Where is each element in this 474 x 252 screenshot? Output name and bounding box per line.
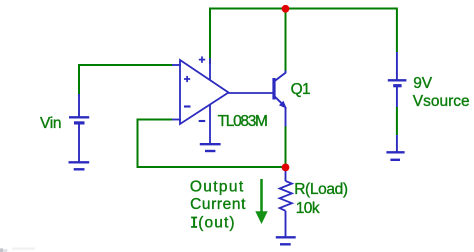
ground under Vsource xyxy=(386,135,404,160)
svg-text:9V: 9V xyxy=(413,75,433,92)
ground under Vin xyxy=(69,162,90,169)
stray screenshot artifact bottom-left xyxy=(0,248,35,252)
ground under op-amp V- xyxy=(200,144,221,151)
op-amp V+ power pin xyxy=(209,58,211,80)
op-amp V- power pin xyxy=(209,105,211,145)
transistor Q1 base bar xyxy=(272,78,275,100)
svg-text:10k: 10k xyxy=(296,200,320,217)
op-amp output pin to Q1 base xyxy=(229,92,273,94)
wire top-left segment (op-amp V+ riser to top rail) xyxy=(210,9,286,65)
wire from Vin to op-amp non-inverting input xyxy=(79,65,173,95)
svg-text:Current: Current xyxy=(190,196,246,213)
transistor Q1 collector lead xyxy=(274,71,286,82)
node junction dot top (collector / Vsource rail) xyxy=(282,5,290,13)
battery reference label Vsource xyxy=(413,93,470,110)
svg-text:Q1: Q1 xyxy=(291,81,310,98)
svg-text:R(Load): R(Load) xyxy=(294,181,348,198)
svg-text:Vin: Vin xyxy=(40,115,61,132)
wire collector riser xyxy=(285,9,287,72)
op-amp U1 triangle body xyxy=(180,60,229,124)
resistor value label 10k xyxy=(296,200,320,217)
current arrow I(out) xyxy=(255,179,267,224)
transistor reference label Q1 xyxy=(291,81,310,98)
svg-text:Vsource: Vsource xyxy=(413,93,470,110)
node junction dot output (emitter / feedback / load) xyxy=(282,164,290,172)
op-amp minus input label xyxy=(184,105,191,107)
wire feedback from output node to inverting input xyxy=(138,120,286,168)
op-amp plus input label xyxy=(184,76,190,82)
annotation text Output Current I(out) xyxy=(190,178,246,231)
op-amp value label TL083M xyxy=(218,113,267,130)
ground under R(Load) xyxy=(276,237,296,244)
svg-text:TL083M: TL083M xyxy=(218,113,267,130)
transistor Q1 emitter lead with arrow xyxy=(274,96,287,127)
resistor R(Load) xyxy=(280,168,292,238)
op-amp plus power label xyxy=(199,56,205,62)
wire emitter to output node xyxy=(285,126,287,168)
svg-text:(out): (out) xyxy=(198,215,235,232)
op-amp non-inverting input pin xyxy=(172,64,181,66)
op-amp inverting input pin xyxy=(172,119,181,121)
wire top-right segment (top rail to Vsource) xyxy=(286,9,397,53)
battery Vsource 9V xyxy=(388,52,407,107)
battery label Vin xyxy=(40,115,61,132)
op-amp minus power label xyxy=(199,120,206,122)
resistor reference label R(Load) xyxy=(294,181,348,198)
battery Vin xyxy=(69,94,89,162)
wire Vsource negative to ground xyxy=(396,107,398,135)
battery value label 9V xyxy=(413,75,433,92)
svg-text:Output: Output xyxy=(190,178,245,195)
